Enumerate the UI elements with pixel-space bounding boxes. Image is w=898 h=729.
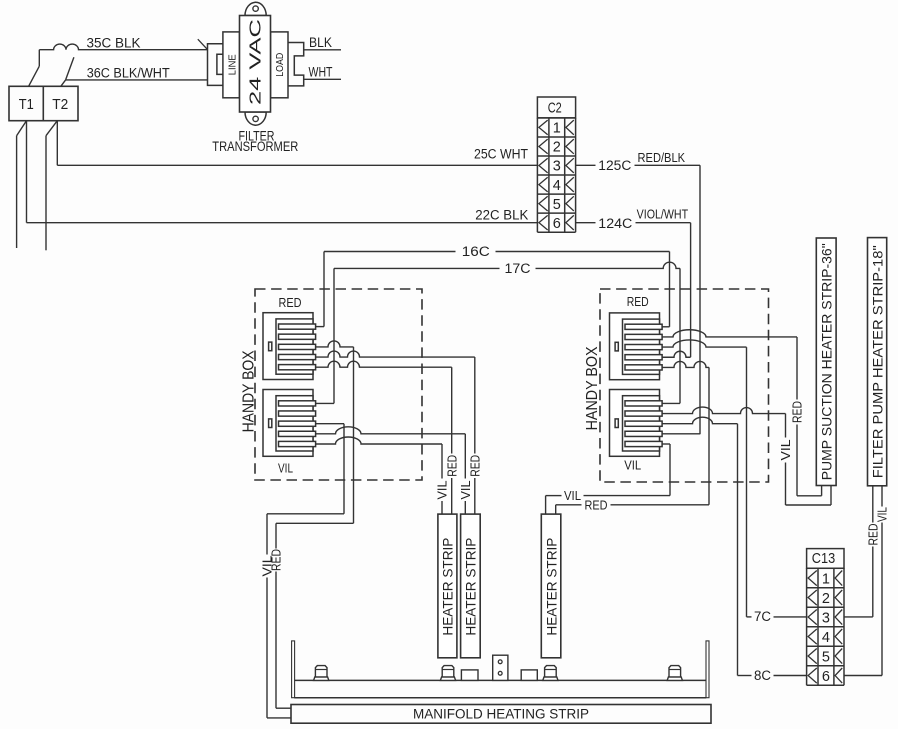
svg-text:C13: C13: [812, 551, 835, 567]
svg-text:RED: RED: [627, 294, 649, 309]
svg-text:5: 5: [553, 197, 561, 213]
svg-text:5: 5: [822, 649, 830, 665]
svg-text:17C: 17C: [505, 261, 531, 276]
svg-text:4: 4: [822, 630, 830, 646]
svg-text:T2: T2: [52, 97, 68, 113]
svg-text:36C BLK/WHT: 36C BLK/WHT: [87, 66, 170, 81]
svg-text:WHT: WHT: [309, 65, 333, 80]
svg-text:RED/BLK: RED/BLK: [638, 150, 686, 165]
svg-text:35C BLK: 35C BLK: [87, 35, 141, 50]
svg-text:HEATER STRIP: HEATER STRIP: [440, 538, 456, 636]
svg-text:124C: 124C: [598, 216, 632, 231]
svg-text:VIL: VIL: [778, 440, 793, 461]
svg-text:7C: 7C: [754, 609, 771, 624]
svg-text:RED: RED: [790, 401, 805, 423]
svg-text:RED: RED: [585, 497, 608, 512]
svg-text:RED: RED: [865, 524, 880, 546]
svg-text:T1: T1: [19, 97, 34, 113]
svg-text:6: 6: [822, 669, 830, 685]
svg-text:HANDY BOX: HANDY BOX: [584, 346, 601, 430]
svg-text:4: 4: [553, 178, 561, 194]
svg-text:RED: RED: [444, 455, 459, 477]
svg-text:FILTER PUMP HEATER STRIP-18: FILTER PUMP HEATER STRIP-18": [870, 245, 885, 478]
svg-text:2: 2: [553, 140, 561, 156]
svg-text:16C: 16C: [462, 244, 490, 259]
svg-text:3: 3: [822, 610, 830, 626]
svg-text:VIL: VIL: [260, 556, 275, 577]
svg-text:2: 2: [822, 591, 830, 607]
svg-text:C2: C2: [548, 101, 562, 117]
svg-text:HANDY BOX: HANDY BOX: [240, 350, 257, 432]
svg-text:24 VAC: 24 VAC: [247, 19, 264, 105]
svg-text:8C: 8C: [754, 668, 771, 683]
svg-text:RED: RED: [279, 295, 302, 310]
svg-text:VIL: VIL: [564, 488, 581, 503]
svg-text:MANIFOLD HEATING STRIP: MANIFOLD HEATING STRIP: [413, 707, 589, 722]
svg-text:VIL: VIL: [458, 481, 473, 500]
svg-text:1: 1: [822, 571, 830, 587]
svg-text:BLK: BLK: [309, 35, 332, 50]
svg-text:VIOL/WHT: VIOL/WHT: [637, 206, 689, 221]
svg-text:HEATER STRIP: HEATER STRIP: [543, 538, 559, 636]
svg-text:RED: RED: [467, 455, 482, 477]
svg-text:TRANSFORMER: TRANSFORMER: [212, 139, 298, 154]
svg-text:6: 6: [553, 216, 561, 232]
svg-text:VIL: VIL: [278, 461, 293, 476]
svg-text:25C WHT: 25C WHT: [474, 147, 528, 162]
svg-text:LINE: LINE: [227, 54, 238, 75]
svg-text:VIL: VIL: [875, 507, 890, 522]
svg-text:22C BLK: 22C BLK: [475, 208, 528, 223]
svg-text:VIL: VIL: [435, 481, 450, 500]
svg-text:1: 1: [553, 121, 561, 137]
svg-text:HEATER STRIP: HEATER STRIP: [463, 538, 479, 636]
svg-text:LOAD: LOAD: [275, 53, 286, 77]
svg-text:VIL: VIL: [624, 458, 641, 473]
svg-text:PUMP SUCTION HEATER STRIP-3: PUMP SUCTION HEATER STRIP-36": [819, 243, 834, 480]
svg-text:3: 3: [553, 159, 561, 175]
svg-text:125C: 125C: [598, 158, 631, 173]
